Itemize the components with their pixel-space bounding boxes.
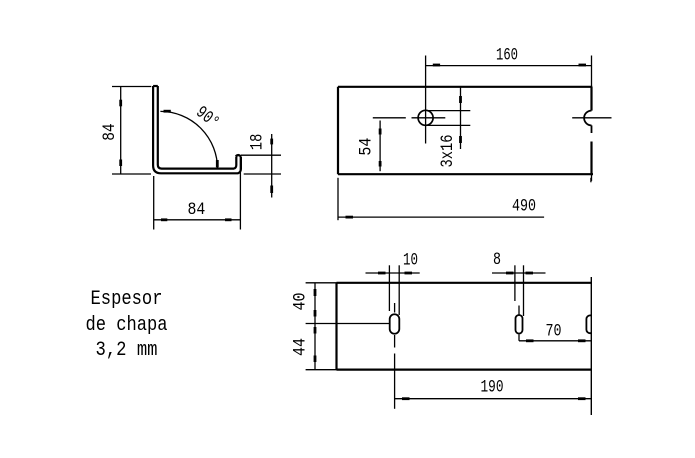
svg-text:10: 10 [403,252,418,271]
svg-text:40: 40 [292,293,311,311]
svg-text:54: 54 [358,138,377,156]
svg-text:de chapa: de chapa [86,314,168,337]
svg-text:190: 190 [481,379,504,398]
svg-text:84: 84 [101,123,120,140]
svg-text:84: 84 [188,201,206,220]
svg-text:70: 70 [546,323,562,342]
svg-text:3,2 mm: 3,2 mm [96,339,158,362]
svg-text:8: 8 [493,251,501,270]
svg-text:Espesor: Espesor [91,288,163,311]
svg-text:160: 160 [496,46,518,65]
svg-text:3x16: 3x16 [439,135,458,168]
svg-text:18: 18 [249,134,268,150]
svg-text:490: 490 [512,198,536,217]
svg-text:44: 44 [292,338,311,356]
